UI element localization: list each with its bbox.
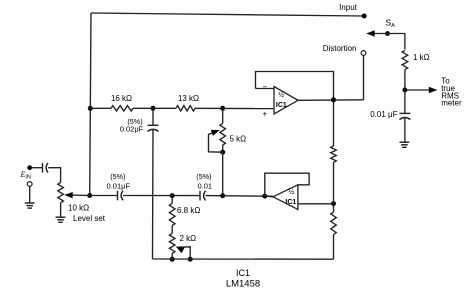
wire opamp1 inverting stub xyxy=(256,88,275,90)
wire EIN return to ground xyxy=(29,186,31,203)
node 16k/13k junction xyxy=(151,106,156,111)
wire 5k pot wiper xyxy=(209,132,223,153)
svg-text:Input: Input xyxy=(339,3,358,12)
op-amp U1a triangle xyxy=(274,87,298,115)
wire row2 middle segment xyxy=(123,195,200,197)
resistor R5 5k pot body xyxy=(220,123,226,145)
wire 6.8k top lead xyxy=(171,196,173,204)
wire cap to pot top xyxy=(48,168,61,183)
wire cap to ground xyxy=(404,118,406,143)
terminal Distortion circle xyxy=(361,51,366,56)
svg-text:−: − xyxy=(263,82,268,91)
wire node X to opamp2 input xyxy=(298,203,334,205)
resistor R lower unlabeled xyxy=(331,212,337,235)
resistor R 2k pot body xyxy=(169,233,175,253)
node pot wiper / row2 junction xyxy=(87,193,92,198)
arrow 2k wiper head xyxy=(176,246,185,253)
svg-text:0.01μF: 0.01μF xyxy=(107,181,131,190)
wire 5k junction to row2 xyxy=(222,152,224,196)
svg-text:IC1: IC1 xyxy=(276,102,287,109)
node 5k wiper junction xyxy=(220,150,225,155)
resistor R 13k xyxy=(176,106,195,111)
wire SA to 1k xyxy=(388,34,405,50)
wire bottom rail xyxy=(153,258,334,260)
wire distortion drop xyxy=(363,55,365,99)
op-amp U1b triangle xyxy=(273,185,298,210)
svg-text:13 kΩ: 13 kΩ xyxy=(178,94,199,103)
wire 16k left lead xyxy=(90,107,111,109)
capacitor C 0.01 series xyxy=(199,191,201,201)
resistor R 6.8k xyxy=(169,203,175,225)
ground at output cap xyxy=(400,141,410,143)
node 6.8k top junction xyxy=(170,193,175,198)
wire opamp1 output xyxy=(298,99,364,102)
terminal EIN dot xyxy=(27,165,32,170)
svg-text:Level set: Level set xyxy=(73,214,106,223)
capacitor C input series xyxy=(42,163,44,173)
resistor R 10k pot body xyxy=(58,183,64,203)
svg-text:0.01: 0.01 xyxy=(197,181,212,190)
wire meter arrow shaft xyxy=(405,89,431,91)
wire 2k pot wiper xyxy=(179,247,191,259)
node opamp1 output junction xyxy=(331,97,336,102)
node X junction xyxy=(331,201,336,206)
wire opamp2 output segment xyxy=(265,195,273,198)
arrow SA blade head xyxy=(366,30,375,36)
svg-text:6.8 kΩ: 6.8 kΩ xyxy=(177,206,200,215)
svg-text:1 kΩ: 1 kΩ xyxy=(413,53,430,62)
wire row2 left segment xyxy=(90,195,118,197)
svg-text:(5%): (5%) xyxy=(110,172,125,181)
svg-text:IC1: IC1 xyxy=(236,268,250,278)
svg-text:Distortion: Distortion xyxy=(323,44,357,53)
ground at 10k pot xyxy=(56,216,66,218)
wire top feedback bus xyxy=(91,13,364,16)
wire 5k top lead xyxy=(222,108,224,123)
wire 1k to meter junction xyxy=(404,70,406,90)
svg-text:LM1458: LM1458 xyxy=(226,278,260,289)
capacitor C 0.01uF shunt xyxy=(399,112,410,114)
wire 10k to ground xyxy=(60,203,62,218)
svg-text:meter: meter xyxy=(441,99,462,108)
svg-text:+: + xyxy=(263,110,268,119)
node 13k/5k junction xyxy=(220,106,225,111)
wire 10k pot wiper xyxy=(67,194,90,197)
arrow to RMS meter xyxy=(429,87,438,93)
wire meter junction to cap xyxy=(404,90,406,113)
svg-text:½: ½ xyxy=(289,188,295,196)
wire 16k to 13k xyxy=(133,107,176,109)
resistor R upper unlabeled xyxy=(331,146,337,162)
terminal Input dot xyxy=(362,14,367,19)
ground at EIN return xyxy=(25,202,35,204)
switch SA pole xyxy=(385,31,390,36)
wire upper resistor to opamp1 output xyxy=(333,100,335,146)
svg-text:16 kΩ: 16 kΩ xyxy=(111,94,132,103)
svg-text:2 kΩ: 2 kΩ xyxy=(180,234,197,243)
wire 6.8k to 2k xyxy=(171,226,173,234)
wire 5k bottom lead xyxy=(222,145,224,152)
wire 0.02uF bottom lead down to bottom rail xyxy=(152,130,155,259)
switch SA blade xyxy=(369,33,388,35)
svg-text:IC1: IC1 xyxy=(285,199,296,206)
svg-text:(5%): (5%) xyxy=(196,172,211,181)
wire opamp2 feedback loop xyxy=(265,173,309,196)
wire 0.02uF top lead xyxy=(152,108,154,125)
svg-text:10 kΩ: 10 kΩ xyxy=(68,204,89,213)
arrow 5k wiper head xyxy=(211,130,220,136)
capacitor C 0.02uF xyxy=(148,124,159,126)
svg-text:0.02μF: 0.02μF xyxy=(120,124,144,133)
capacitor C 0.01uF series xyxy=(117,191,119,201)
node left-bus/16k junction xyxy=(88,106,93,111)
svg-text:½: ½ xyxy=(278,91,284,99)
wire bottom rail to lower resistor xyxy=(333,235,335,260)
wire left bus xyxy=(90,13,91,196)
wire 13k to opamp xyxy=(195,107,274,109)
terminal EIN return circle xyxy=(27,182,32,187)
node 2k bottom junction xyxy=(170,257,175,262)
svg-text:0.01 μF: 0.01 μF xyxy=(370,110,397,119)
wire node X up lead xyxy=(333,162,335,203)
wire row2 right segment xyxy=(206,195,273,198)
resistor R 16k xyxy=(111,106,133,111)
resistor R 1k xyxy=(402,50,408,69)
wire 2k bottom lead xyxy=(171,253,173,259)
arrow 10k wiper head xyxy=(64,192,73,198)
wire EIN to cap xyxy=(32,167,43,169)
node opamp2 output junction xyxy=(262,194,267,199)
svg-text:5 kΩ: 5 kΩ xyxy=(230,135,247,144)
wire lower resistor to node X xyxy=(333,204,335,212)
wire opamp1 feedback loop xyxy=(256,72,334,100)
node meter junction xyxy=(402,88,407,93)
node 2k wiper junction xyxy=(188,257,193,262)
node 0.01/5k row2 junction xyxy=(220,193,225,198)
